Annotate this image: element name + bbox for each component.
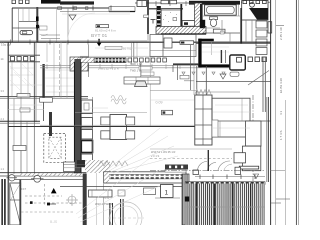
svg-text:B.JS: B.JS [50, 220, 58, 224]
main line y173 [0, 172, 86, 174]
left outer wall x8 [7, 42, 9, 225]
bedroom outline [212, 98, 250, 137]
dashdot property line [150, 170, 265, 172]
dark box at wall corner [77, 160, 85, 167]
wall segment dark x50 [49, 112, 52, 136]
deck boards hatch [185, 184, 265, 226]
bathtub inner [207, 6, 235, 13]
svg-text:B1 T02: B1 T02 [123, 46, 132, 50]
chair bottom-left [101, 131, 110, 139]
svg-text:1 4: 1 4 [1, 41, 5, 45]
dashed rect inner [49, 137, 61, 158]
spring scribble [111, 96, 126, 105]
survey circle A [34, 175, 41, 182]
zigzag scribble [195, 90, 211, 95]
label box dark dot [180, 41, 194, 45]
funnel symbol [69, 15, 76, 20]
lobby table symbol [151, 19, 156, 21]
hall end wall verticals [133, 42, 135, 62]
hall door arc [68, 13, 95, 40]
chair top-right [126, 117, 135, 125]
wardrobe dark box [81, 141, 92, 153]
washbasin [213, 29, 225, 33]
stove counter outline [230, 55, 246, 70]
wall vertical x12 [11, 8, 13, 42]
stair diagonal [10, 184, 20, 224]
bedroom line y121 [212, 120, 271, 122]
label box kitchen [230, 72, 239, 76]
squares row lines [8, 54, 40, 56]
dim ticks on y42 [11, 40, 89, 45]
corridor extra verticals top-left [12, 8, 67, 98]
line y179.5 [8, 179, 85, 181]
wardrobe inner mark [84, 103, 89, 110]
corridor edge lines below band [96, 173, 98, 225]
closet area verticals [172, 65, 174, 72]
main horizontal y126.5 [8, 126, 218, 128]
label box L2 [173, 18, 177, 21]
closet side line [92, 97, 94, 173]
dimension line y12 [60, 11, 130, 13]
partition line y21 [19, 21, 37, 23]
sideboard [124, 77, 160, 84]
lamp shade [135, 81, 148, 87]
label box 0.09 [162, 110, 173, 115]
svg-text:E1 B1 4 20: E1 B1 4 20 [279, 78, 283, 93]
bathroom extra lines [203, 16, 252, 42]
dot on dashed line [30, 201, 33, 204]
wall corner hatch block [70, 57, 88, 71]
black C-wall left bar [198, 39, 201, 67]
bridge lines left of band [63, 164, 85, 166]
white box left [64, 162, 76, 172]
corridor wall band [109, 7, 135, 12]
wall vertical x148 top [147, 0, 149, 34]
svg-text:81.60 m2 4 6 m: 81.60 m2 4 6 m [95, 29, 116, 33]
sill bar [165, 170, 186, 173]
kitchen top squares [243, 0, 266, 3]
fixture rounded rect [20, 31, 33, 35]
unit 1 box [161, 185, 174, 198]
dim line above checker [80, 55, 163, 57]
small white box above deck [193, 170, 199, 175]
kitchen sink circle [250, 2, 255, 7]
dark lines y121 [0, 120, 40, 122]
dimension tick right 1 [276, 25, 284, 27]
shower tray [164, 38, 172, 48]
dashed line y203 [25, 202, 85, 204]
wall top-right dark bar [189, 1, 240, 5]
wall column black segment 2 [36, 25, 39, 28]
entry cabinet [182, 21, 198, 27]
svg-text:4 1: 4 1 [279, 110, 283, 115]
corridor line x21 [20, 62, 22, 122]
wall vertical x68 [67, 8, 69, 42]
small box left of shaft [234, 153, 246, 163]
kitchen unit outline [242, 1, 268, 21]
dashed rect outer [44, 133, 66, 162]
label box y95 [17, 94, 30, 98]
svg-text:2 0 1 S: 2 0 1 S [151, 154, 159, 158]
right outer border [295, 0, 297, 225]
compass circle [110, 202, 142, 234]
double line y96-98 [0, 95, 88, 97]
closet ladder right [195, 95, 212, 145]
window tick squares top-left [12, 0, 29, 4]
wall edge lines [73, 62, 75, 174]
wall poche horizontal band [156, 27, 206, 35]
secondary line y43.5 [196, 43, 271, 45]
wall vertical x18 [18, 8, 20, 42]
entry room top wall [149, 8, 183, 10]
partition line y28 [12, 27, 37, 29]
dark table band [165, 165, 188, 170]
dimension line top 2 [241, 1, 270, 3]
main horizontal wall line y42 [0, 41, 271, 43]
bathroom partition x241 [240, 8, 242, 43]
entry top boxes [161, 0, 169, 4]
zigzag above window band [98, 161, 128, 166]
wall column black segment [36, 17, 39, 22]
deck mid line [185, 206, 265, 208]
svg-text:2TW1 S2 + 1 LI R: 2TW1 S2 + 1 LI R [98, 67, 119, 71]
hall vertical x56 [56, 9, 58, 42]
label box row1 [89, 190, 113, 197]
bottom vertical pair A [109, 203, 110, 225]
wall stub x220 [221, 50, 222, 63]
svg-text:1: 1 [165, 190, 169, 197]
left margin tiny marks [1, 41, 5, 171]
hall label box left [40, 26, 48, 30]
stove hole [237, 57, 242, 62]
sill dark line left of C [173, 63, 198, 65]
label box right [144, 188, 156, 195]
dimension row y65-68 [40, 64, 230, 66]
deck joist dark 2 [214, 184, 215, 226]
svg-text:BYT 01: BYT 01 [91, 33, 108, 39]
wall poche bottom edge [161, 33, 206, 35]
hatch between [20, 173, 85, 176]
shelf lines top-left room [41, 34, 60, 36]
dark square deck corner [185, 197, 190, 202]
main horizontal y125.3 light [40, 124, 218, 126]
main line y176 [0, 175, 86, 177]
living room north line [75, 112, 147, 114]
small white box x137 [137, 1, 147, 7]
svg-text:1 7 4 S: 1 7 4 S [279, 130, 283, 140]
closet left edge upper [205, 66, 207, 95]
deck joist dark 1 [196, 184, 197, 226]
deck fascia [185, 182, 265, 185]
squares row left [10, 57, 34, 61]
window band south wall [104, 172, 186, 183]
black rect bath corner [200, 20, 205, 28]
dashed line y195 [25, 195, 62, 197]
shaft rect lower [242, 146, 260, 171]
small dark square x37 y25 [37, 25, 40, 28]
shower room outline [150, 35, 196, 57]
pendant line [140, 63, 142, 82]
stair shaft [10, 183, 21, 225]
bathroom line y33 [203, 32, 240, 34]
svg-text:2 4: 2 4 [1, 117, 5, 121]
vertical post line [208, 150, 209, 171]
label box L1 [144, 15, 149, 18]
hatch strip row [80, 58, 94, 63]
bottom vertical pair B [120, 199, 121, 225]
dining table [110, 115, 127, 140]
dimension line top [135, 2, 197, 4]
squares row right [241, 57, 266, 62]
marks row right [182, 72, 225, 75]
label box closet [180, 75, 189, 79]
bathroom left wall dark [200, 4, 203, 28]
main interior wall dark [74, 59, 81, 174]
small box right above deck [235, 167, 241, 174]
checker row dark middle [94, 58, 126, 63]
door swing arcs deck [198, 162, 208, 172]
chair top-left [101, 117, 110, 125]
right inner line x275 [275, 0, 277, 225]
black C-wall bottom bar [198, 64, 234, 67]
survey circle B [9, 175, 15, 181]
left bottom wall dark double [1, 179, 3, 225]
kitchen south line y81.5 [196, 81, 271, 83]
wall column x37 dark [36, 7, 38, 42]
wc wall dark x43 [42, 64, 44, 98]
tick vertical x131 [131, 43, 133, 65]
funnel below shaft [254, 174, 259, 179]
glazing dashes [109, 175, 182, 179]
top dim ticks kitchen [142, 1, 186, 6]
door jamb rect right [268, 22, 272, 33]
wardrobe boxes column [81, 100, 92, 164]
right wall x268 [267, 97, 269, 182]
right border line x270 [270, 0, 272, 225]
label marks row [118, 190, 125, 196]
wall vertical x148 lower [147, 34, 149, 42]
dim row above deck [195, 176, 265, 178]
corridor lines lower-left [13, 98, 15, 174]
corridor wall x34.5 [33, 42, 35, 122]
tall shaft rect upper [246, 121, 262, 146]
svg-text:1ST: 1ST [21, 187, 26, 191]
stair right wall dark [19, 180, 21, 226]
dot on dashed [47, 203, 50, 206]
dimension tick right 2 [276, 198, 290, 200]
poche band bottom-left corner of living [85, 160, 110, 173]
dim line hall vertical dashed [59, 44, 61, 96]
stair mid line [10, 199, 21, 201]
label box hall [96, 25, 109, 28]
north triangle [51, 188, 57, 193]
bedroom closet inner verticals [241, 98, 243, 121]
wall pair x263 upper [262, 57, 264, 112]
shower room divider [162, 35, 164, 57]
svg-text:0.09: 0.09 [156, 101, 163, 105]
fixture inner [22, 32, 27, 34]
threshold bar [239, 166, 258, 169]
toilet [210, 17, 218, 20]
entry closet checker column [157, 6, 161, 33]
door arcs [218, 161, 230, 170]
svg-text:1 2: 1 2 [1, 167, 5, 171]
wall top border dark double line [60, 1, 94, 4]
door leaf diagonal [248, 71, 269, 86]
kitchen dark corner [249, 8, 268, 20]
bathtub [205, 5, 237, 15]
svg-text:3 1 R: 3 1 R [103, 196, 109, 200]
entrance arrow [98, 39, 99, 44]
entry room right wall [180, 4, 182, 26]
dimension line y8 [12, 7, 109, 9]
deck joist dark 3 [232, 184, 233, 226]
svg-text:2 45 1 30: 2 45 1 30 [279, 27, 283, 40]
horizontal line y186.5 [60, 186, 182, 188]
faint room texture lines [10, 14, 250, 128]
dashed line y158 [150, 158, 232, 160]
svg-text:3 0: 3 0 [1, 89, 5, 93]
wall top border black bar left [41, 0, 61, 4]
entry stipple [160, 12, 177, 22]
lower wall x84 dark [83, 174, 87, 226]
label box x13 y146 [13, 146, 26, 151]
open squares row right of checker [128, 58, 166, 62]
funnel symbol kitchen [220, 74, 226, 79]
kitchen cabinets column [256, 21, 267, 55]
bottom right tick [271, 202, 281, 204]
label box y98 [40, 98, 53, 103]
companion line y40.9 [0, 40, 147, 42]
dashdot centerline vertical [252, 95, 254, 182]
deck left edge posts [182, 174, 189, 225]
top tick rects [58, 7, 88, 10]
dashed diagonals [49, 137, 61, 158]
dimension ticks y8 [73, 6, 111, 11]
deck joist dark 4 [250, 184, 251, 226]
closet small box [212, 120, 218, 137]
label box below line [105, 46, 122, 49]
wall poche vertical band [195, 3, 203, 34]
black C-wall top bar [198, 39, 214, 42]
chair bottom-right [126, 131, 135, 139]
circle cross symbol [68, 196, 76, 204]
